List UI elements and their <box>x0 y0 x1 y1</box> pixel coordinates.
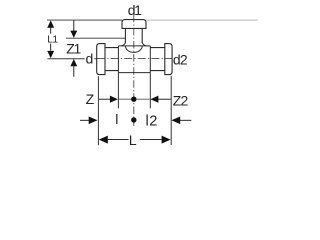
dimension line between socket stops row1 <box>119 98 150 100</box>
svg-text:Z1: Z1 <box>66 41 81 57</box>
dimension Z (row 1 left) <box>99 96 118 103</box>
dimension l2 (row 2 right arrow) <box>171 117 191 125</box>
extension line right fitting end <box>170 76 172 145</box>
branch internal socket cup <box>125 46 142 52</box>
dimension Z2 (row 1 right) <box>150 96 170 103</box>
dimension Z1 <box>70 21 77 77</box>
extension line left fitting end <box>97 76 99 145</box>
faint continuation line to the right of branch top <box>146 19 257 21</box>
Z1 extension line (branch socket stop level) <box>66 37 125 39</box>
step line right (socket stop) <box>149 46 151 73</box>
svg-text:d1: d1 <box>128 2 142 18</box>
top extension line (branch end level) <box>47 19 122 21</box>
fillet right <box>142 43 146 46</box>
step line left (socket stop) <box>117 46 119 73</box>
horizontal axis centerline dash-dot through fitting <box>97 58 172 60</box>
svg-text:d2: d2 <box>173 52 188 68</box>
right press collar of body <box>165 44 172 75</box>
svg-text:Z2: Z2 <box>173 92 189 108</box>
dimension L (row 3) <box>99 136 171 144</box>
branch tube edges <box>125 28 142 43</box>
fillet left <box>121 43 125 46</box>
extension line right socket stop <box>149 73 151 109</box>
body tube top edges (socket zones) <box>105 47 165 49</box>
dimension L1 <box>47 20 54 58</box>
raised centre section top ledge <box>118 45 150 47</box>
svg-text:Z: Z <box>86 91 95 107</box>
branch press collar d1 <box>122 20 146 29</box>
horizontal axis centerline (solid left extension part) <box>47 58 96 60</box>
extension line left socket stop <box>117 73 119 109</box>
svg-text:l: l <box>115 111 118 127</box>
left press collar of body <box>97 44 105 75</box>
center dot row1 <box>131 97 136 102</box>
svg-text:d: d <box>86 51 94 67</box>
svg-text:L: L <box>129 133 137 149</box>
center dot row2 <box>131 117 136 122</box>
raised centre section bottom edge <box>118 72 150 74</box>
svg-text:L1: L1 <box>47 35 58 46</box>
dimension l (row 2 left arrow) <box>80 117 98 125</box>
vertical branch centerline dash-dot <box>133 15 135 126</box>
svg-text:l2: l2 <box>146 114 158 130</box>
body tube bottom edges (socket zones) <box>105 70 165 72</box>
